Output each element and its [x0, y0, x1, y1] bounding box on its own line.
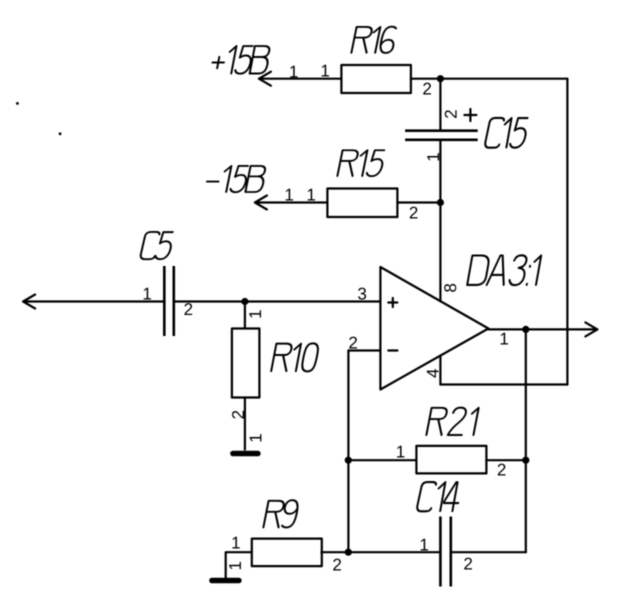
pin label 4 of op-amp (rotated)	[427, 369, 439, 378]
wire bus to C15 top plate	[439, 79, 441, 130]
pin label 2 of R10 pin2 (rotated)	[232, 411, 244, 419]
pin label 2 of C5 pin2	[184, 303, 192, 315]
wire R9 pin2	[321, 551, 348, 553]
ground of R9	[212, 578, 239, 584]
pin label 1 of R10 ground (rotated)	[250, 434, 262, 441]
resistor R21	[416, 446, 486, 474]
ground of R10	[233, 451, 258, 457]
wire C14 pin2	[452, 551, 526, 553]
resistor R10	[232, 329, 260, 398]
pin label 1 of -15B wire	[286, 189, 293, 201]
resistor R9	[252, 539, 322, 567]
pin label 2 of R15 pin2	[410, 207, 418, 219]
junction dot output/feedback	[522, 326, 529, 333]
op-amp DA3:1 triangle	[380, 267, 488, 390]
pin label 1 of C15 (rotated)	[427, 153, 439, 160]
label R9	[263, 500, 299, 527]
wire feedback vertical lower	[525, 460, 527, 552]
wire inverting bus down	[347, 351, 349, 553]
pin label 1 of C14 pin1	[421, 539, 428, 551]
wire op-amp pin 4 lead	[439, 356, 441, 385]
label DA3:1	[467, 255, 541, 285]
capacitor C14 plates	[440, 517, 450, 587]
minus sign inverting input	[388, 349, 397, 351]
pin label 1 of R10 pin1 (rotated)	[249, 310, 261, 317]
power label +15B	[210, 46, 271, 74]
pin label 2 of C14 pin2	[464, 558, 472, 570]
junction dot R21 pin2/feedback	[522, 457, 529, 464]
pin label 1 of R15 pin1	[308, 189, 315, 201]
wire R16 pin2 to bus	[411, 78, 441, 80]
speck dot left upper	[16, 102, 19, 105]
pin label 8 of op-amp (rotated)	[444, 284, 456, 292]
wire C15 bottom plate to -15 junction	[439, 141, 441, 203]
label R10	[271, 343, 319, 371]
polarity plus of C15	[464, 109, 476, 121]
speck dot left lower	[59, 132, 62, 135]
wire R9 pin1 to ground	[226, 552, 252, 578]
wire R10 pin2 to ground	[244, 398, 246, 450]
pin label 2 of C15 (rotated)	[445, 110, 457, 118]
wire bottom loop leftward	[440, 383, 567, 385]
pin label 2 of R21 pin2	[498, 464, 506, 476]
pin label 2 of R9 pin2	[333, 559, 341, 571]
wire right vertical	[566, 79, 568, 385]
wire R15 pin2 to bus	[397, 201, 440, 203]
junction dot C5/R10	[241, 298, 248, 305]
label R16	[351, 27, 397, 53]
resistor R15	[327, 189, 397, 218]
plus sign non-inverting input	[388, 298, 397, 307]
wire top rail to right vertical	[440, 78, 567, 80]
wire op-amp pin 2	[348, 349, 380, 351]
wire R21 pin1	[348, 459, 416, 461]
pin label 1 of R21 pin1	[397, 446, 404, 458]
wire R21 pin2	[486, 459, 525, 461]
label C14	[416, 482, 462, 511]
label C5	[140, 232, 174, 259]
pin label 1 of R9 pin1	[232, 537, 239, 549]
capacitor C15 plates	[405, 131, 478, 140]
junction dot -15 rail at bus	[437, 199, 444, 206]
pin label 1 of C5 pin1	[144, 288, 151, 300]
label R15	[337, 150, 385, 176]
wire junction to R10	[244, 302, 246, 329]
wire C14 pin1	[348, 551, 439, 553]
wire C5 pin2 to op-amp pin 3	[175, 300, 380, 302]
pin label 3 of op-amp	[358, 288, 366, 300]
junction dot R9/C14/bus	[345, 549, 352, 556]
junction dot R21 pin1	[345, 457, 352, 464]
power label -15B	[205, 166, 267, 192]
pin label 2 of R16 pin2	[423, 83, 431, 95]
wire +15V rail with arrowhead	[259, 72, 342, 86]
label R21	[426, 408, 478, 435]
wire input with arrowhead	[23, 295, 163, 309]
resistor R16	[341, 65, 411, 93]
wire -15V rail with arrowhead	[255, 196, 328, 210]
pin label 2 of op-amp	[349, 337, 357, 349]
wire feedback vertical upper	[525, 329, 527, 460]
pin label 1 of R9 ground (rotated)	[229, 562, 241, 569]
pin label 1 of op-amp output	[501, 333, 508, 345]
pin label 1 of R16 pin1	[322, 65, 329, 77]
wire output with arrowhead	[488, 322, 597, 336]
capacitor C5 plates	[164, 266, 174, 336]
pin label 1 of +15B wire	[290, 66, 297, 78]
label C15	[484, 118, 528, 148]
junction dot top rail at bus	[437, 75, 444, 82]
wire bus to op-amp pin 8	[439, 203, 441, 302]
